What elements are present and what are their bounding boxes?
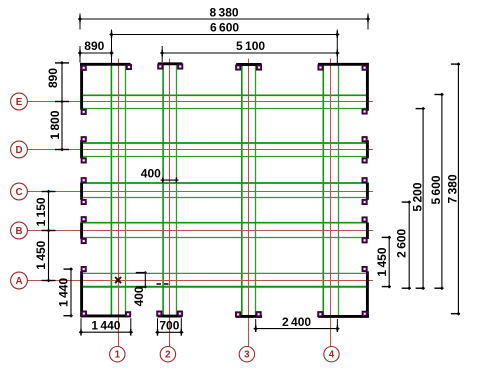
column marker right 3 [362,158,367,163]
beam axis 2 right edge [176,64,178,317]
wall right corner bottom segment [366,271,369,317]
svg-text:C: C [15,187,22,198]
column marker right 7 [362,238,367,243]
axis line 3 [248,59,250,347]
wall left segment at C [80,183,83,200]
beam axis 1 left edge [110,64,112,317]
svg-text:890: 890 [84,39,104,53]
column marker right 1 [362,109,367,114]
beam axis 4 right edge [338,64,340,317]
dimension bracket 2600 right [402,200,411,290]
beam axis 3 right edge [255,64,257,317]
axis line 4 [330,59,332,347]
extension line bottom x81 [80,318,82,335]
dimension bracket 1150/1450 left [42,190,56,283]
wall left corner top segment [80,63,83,110]
beam axis E bottom edge [82,108,367,110]
beam axis 1 right edge [125,64,127,317]
svg-text:1 450: 1 450 [375,247,389,276]
extension line at x162 [161,46,163,62]
dimension bracket 1440 left-bottom [64,267,73,317]
hidden dashed line near axis A [157,283,171,285]
wall bottom segment 3 [236,315,262,318]
axis bubble C [11,183,28,200]
axis line D [27,149,374,151]
dimension line 8380 [78,16,370,23]
dimension bracket 5200 right [416,107,425,290]
column marker top 3 [158,64,163,69]
wall top segment 4 [318,63,369,66]
extension line at x337 [336,30,338,64]
svg-text:1 150: 1 150 [34,197,48,226]
extension line bottom x337 [336,319,338,332]
svg-text:B: B [15,226,22,237]
axis line 2 [169,59,171,347]
wall bottom segment 2 [158,315,183,318]
extension line at x111 [111,30,113,64]
column marker right 8 [362,267,367,272]
extension line bottom x255 [255,319,257,332]
dimension line 2400 bottom [254,325,340,332]
column marker top 6 [257,65,262,70]
dimension bracket 5600 right [434,93,443,291]
column marker left 4 [81,178,86,183]
column marker bottom 7 [318,312,323,317]
axis line C [27,191,374,193]
beam axis E top edge [82,94,367,96]
beam axis A top edge [82,272,367,274]
column marker left 3 [81,158,86,163]
wall right corner top segment [366,63,369,111]
extension line left of 8380 [79,14,81,30]
column marker right 5 [362,200,367,205]
svg-text:5 200: 5 200 [410,182,424,211]
wall bottom segment 4 [318,315,369,318]
column marker bottom 6 [256,312,261,317]
axis bubble E [11,93,28,110]
wall top segment 2 [158,62,182,65]
svg-text:D: D [15,145,22,156]
svg-text:1 440: 1 440 [91,318,120,332]
svg-text:A: A [15,276,22,287]
svg-text:5 600: 5 600 [429,175,443,204]
svg-text:4: 4 [329,350,335,361]
svg-text:1: 1 [115,350,121,361]
column marker top 8 [362,65,367,70]
axis line A [27,280,374,282]
column marker left 2 [81,137,86,142]
extension line bottom x181 [180,318,182,335]
svg-text:400: 400 [132,286,146,306]
axis bubble D [11,141,28,158]
dimension bracket 7380 right [451,62,460,315]
axis line E [27,101,374,103]
column marker left 5 [81,200,86,205]
column marker top 2 [127,65,132,70]
beam axis 3 left edge [241,64,243,317]
axis bubble 2 [160,347,175,362]
column marker right 2 [362,137,367,142]
wall left segment at B [80,223,83,240]
beam axis D top edge [82,142,367,144]
column marker left 6 [81,217,86,222]
beam axis C top edge [82,182,367,184]
dimension line 6600 [109,31,339,38]
svg-text:6 600: 6 600 [210,21,239,35]
column marker bottom 5 [236,312,241,317]
axis bubble 4 [324,347,339,362]
column marker top 1 [81,65,86,70]
svg-text:E: E [16,97,23,108]
column marker top 4 [178,64,183,69]
axis line B [27,230,374,232]
column marker bottom 2 [126,312,131,317]
dimension line 1440 bottom [79,329,133,336]
svg-text:3: 3 [244,350,250,361]
wall left segment at D [80,140,83,158]
axis bubble A [11,272,28,289]
svg-text:1 440: 1 440 [56,278,70,307]
dimension bracket 1450 right [382,236,391,289]
extension line bottom x157 [157,318,159,335]
beam axis D bottom edge [82,156,367,158]
beam axis A bottom edge [82,286,367,288]
dimension line 400 at axis 2 [161,177,179,183]
extension line at x80 [79,46,81,63]
beam axis 4 left edge [322,64,324,317]
column marker left 7 [81,239,86,244]
svg-text:5 100: 5 100 [236,39,265,53]
wall right segment at B [366,223,369,240]
column marker bottom 4 [178,311,183,316]
svg-text:1 450: 1 450 [34,240,48,269]
dimension bracket 890/1800 left [55,61,69,151]
column marker right 6 [362,217,367,222]
svg-text:2 400: 2 400 [282,315,311,329]
dimension bracket 400 at axis A [136,271,147,289]
wall top segment 3 [236,63,261,66]
column marker top 5 [236,65,241,70]
svg-text:400: 400 [141,166,161,180]
svg-text:7 380: 7 380 [446,174,460,203]
axis bubble 1 [110,347,125,362]
x marker at intersection 1-A [115,277,121,283]
column marker left 1 [81,110,86,115]
beam axis B top edge [82,222,367,224]
beam axis C bottom edge [82,197,367,199]
column marker right 4 [362,178,367,183]
svg-text:1 800: 1 800 [48,110,62,139]
column marker top 7 [318,65,323,70]
beam axis 2 left edge [162,64,164,317]
extension line bottom x130 [130,318,132,335]
extension line right of 8380 [367,14,369,30]
column marker bottom 1 [82,311,87,316]
wall left corner bottom segment [80,271,83,317]
wall top segment 1 [80,63,131,66]
column marker bottom 8 [362,311,367,316]
axis bubble B [11,222,28,239]
dimension line 700 bottom [155,329,183,336]
column marker left 8 [81,267,86,272]
svg-text:890: 890 [46,68,60,88]
svg-text:8 380: 8 380 [209,6,238,20]
wall right segment at D [366,140,369,158]
wall bottom segment 1 [81,314,130,317]
svg-text:2: 2 [165,350,171,361]
axis line 1 [118,59,120,347]
column marker bottom 3 [157,311,162,316]
svg-text:700: 700 [159,318,179,332]
svg-text:2 600: 2 600 [395,228,409,257]
beam axis B bottom edge [82,237,367,239]
dimension line 5100 [160,50,339,57]
dimension line 890 top [78,50,114,57]
axis bubble 3 [239,347,254,362]
wall right segment at C [366,183,369,200]
